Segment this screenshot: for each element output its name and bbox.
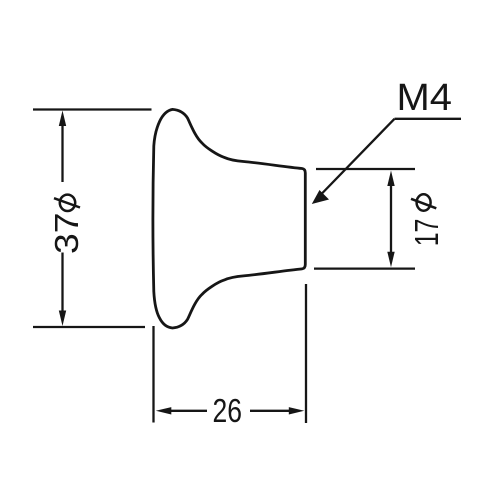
svg-text:26: 26 <box>213 392 243 429</box>
svg-text:17: 17 <box>408 219 445 247</box>
svg-text:M4: M4 <box>397 77 453 119</box>
svg-text:37: 37 <box>48 213 85 255</box>
